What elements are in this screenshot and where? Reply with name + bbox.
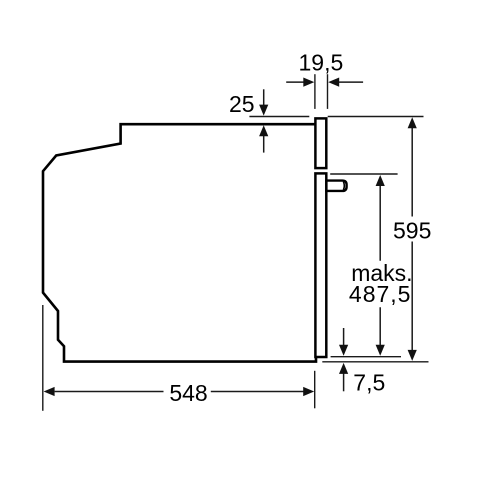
svg-text:548: 548	[169, 380, 207, 406]
svg-text:19,5: 19,5	[299, 50, 344, 76]
svg-text:487,5: 487,5	[349, 281, 412, 307]
svg-text:595: 595	[393, 217, 431, 243]
svg-text:25: 25	[229, 91, 255, 117]
svg-text:7,5: 7,5	[353, 369, 385, 395]
